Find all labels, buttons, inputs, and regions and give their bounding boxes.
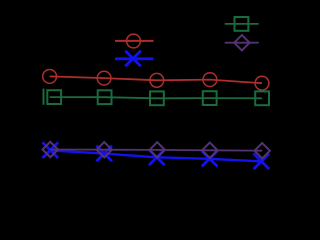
red marker 3	[150, 73, 164, 87]
blue data line	[50, 150, 261, 161]
legend A blue x	[125, 51, 141, 67]
red marker 5	[255, 76, 269, 90]
blue marker 4	[202, 151, 218, 167]
red marker 1	[43, 70, 57, 84]
green marker 1	[47, 90, 61, 104]
blue marker 1	[43, 142, 59, 158]
green marker 3	[150, 91, 164, 105]
purple marker 3	[150, 142, 165, 157]
legend A blue line	[115, 57, 154, 60]
green clipped half-marker bar	[43, 89, 45, 105]
purple marker 4	[202, 143, 217, 158]
blue marker 3	[149, 150, 165, 166]
legend B green line	[225, 23, 259, 25]
green marker 5	[255, 91, 269, 105]
red marker 4	[203, 73, 217, 87]
blue marker 5	[254, 154, 270, 170]
legend B purple line	[225, 42, 259, 44]
purple marker 5	[255, 143, 270, 158]
purple data line	[50, 150, 262, 151]
purple marker 2	[97, 142, 112, 157]
green marker 2	[98, 90, 112, 104]
blue marker 2	[96, 146, 112, 162]
green data line	[50, 97, 263, 98]
legend B green square	[235, 17, 249, 31]
legend A red line	[115, 40, 154, 42]
green marker 4	[203, 91, 217, 105]
purple marker 1	[43, 142, 58, 157]
legend B purple diamond	[234, 35, 249, 50]
red marker 2	[97, 71, 111, 85]
legend A red circle	[127, 34, 141, 48]
red data line	[50, 76, 262, 83]
